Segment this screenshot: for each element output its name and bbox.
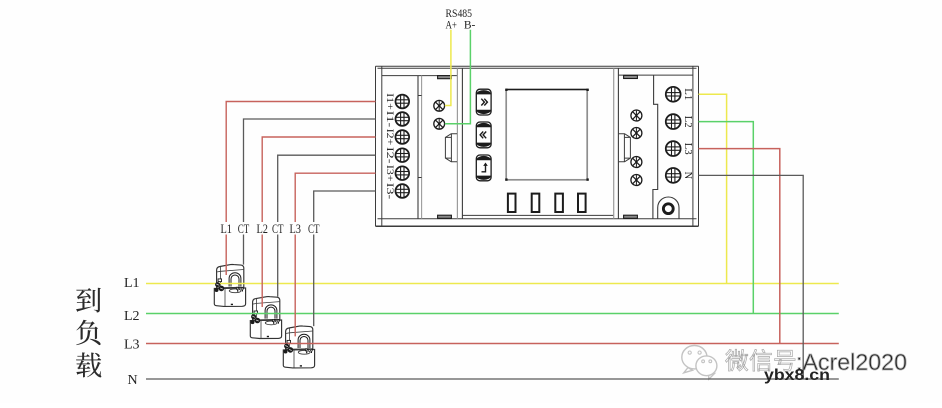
current transformer CT1 (phase L1) (214, 265, 245, 307)
svg-text:L1: L1 (124, 276, 140, 291)
wire L3 terminal to bus (red) (699, 149, 780, 344)
svg-text:L3: L3 (682, 143, 694, 155)
fastening screw 4 (631, 175, 642, 186)
svg-text:A+: A+ (445, 17, 457, 31)
current transformer CT3 (phase L3) (283, 326, 314, 368)
wire I2+ to CT2 (red) (262, 137, 375, 307)
svg-text:L3: L3 (289, 222, 301, 236)
terminal screw I3+ (396, 166, 410, 180)
indicator window 3 (555, 194, 563, 212)
indicator window 4 (578, 194, 586, 212)
indicator window 2 (532, 194, 540, 212)
svg-text:N: N (128, 373, 138, 388)
button right-arrow (476, 89, 491, 115)
svg-text:I3+: I3+ (384, 165, 395, 182)
DIN release handle right (619, 134, 631, 162)
wire bus N (neutral line) (146, 378, 839, 380)
wire bus L2 (green phase line) (146, 313, 839, 315)
wire I1+ to CT1 (red) (226, 102, 375, 276)
RS485 terminal screw A+ (434, 100, 445, 111)
wire L2 terminal to bus (green) (699, 122, 754, 314)
terminal screw I2- (396, 148, 410, 162)
voltage terminal screw L3 (666, 141, 681, 156)
svg-text:L2: L2 (256, 222, 268, 236)
fastening screw 3 (631, 157, 642, 168)
voltage terminal screw N (666, 168, 681, 183)
wire bus L3 (red phase line) (146, 343, 839, 345)
fastening screw 1 (631, 110, 642, 121)
wire bus L1 (yellow phase line) (146, 283, 839, 285)
meter section divider right (613, 68, 615, 219)
wire I1- to CT1 (dark) (244, 119, 376, 265)
svg-text:I2+: I2+ (384, 129, 395, 146)
wire RS485 B- (green) (445, 30, 471, 124)
CT3 secondary terminals (284, 344, 313, 354)
wire label CT (237, 222, 251, 236)
wire N terminal to bus (dark) (699, 175, 804, 379)
DIN clip tab top-right (624, 75, 638, 78)
wire I2- to CT2 (dark) (278, 155, 376, 297)
CT2 secondary terminals (251, 314, 280, 324)
current transformer CT2 (phase L2) (250, 297, 281, 339)
svg-text:L1: L1 (220, 222, 232, 236)
terminal screw I1- (396, 112, 410, 126)
svg-text:I1-: I1- (384, 111, 395, 128)
svg-text:I1+: I1+ (384, 93, 395, 110)
button enter (476, 155, 491, 181)
svg-text:N: N (682, 172, 694, 180)
CT1 secondary terminals (215, 282, 244, 292)
watermark text weixinhao (725, 349, 748, 371)
wire I3+ to CT3 (red) (295, 173, 375, 336)
fastening screw 2 (631, 128, 642, 139)
svg-text:CT: CT (308, 222, 320, 236)
wire label L2 (255, 222, 269, 236)
terminal screw I3- (396, 184, 410, 198)
current input terminal block edge (417, 76, 419, 219)
svg-text:ybx8.cn: ybx8.cn (764, 367, 830, 384)
voltage terminal screw L2 (666, 114, 681, 129)
wire label L1 (219, 222, 233, 236)
button left-arrow (476, 122, 491, 148)
svg-text:I3-: I3- (384, 183, 395, 200)
wire I3- to CT3 (dark) (314, 191, 376, 326)
svg-text:L3: L3 (124, 338, 140, 353)
indicator window 1 (508, 194, 516, 212)
watermark wechat icon (682, 346, 717, 380)
label daofuzai (to load) (76, 288, 101, 313)
meter section divider left (456, 68, 458, 219)
wire label CT (307, 222, 321, 236)
terminal screw I1+ (396, 95, 410, 109)
svg-text:CT: CT (272, 222, 284, 236)
DIN clip tab bottom-right (624, 215, 638, 218)
wire label CT (271, 222, 285, 236)
meter U1 outer case (376, 66, 699, 226)
svg-text:CT: CT (238, 222, 250, 236)
meter case bottom edge (376, 225, 699, 227)
svg-text:L2: L2 (682, 116, 694, 128)
terminal screw I2+ (396, 130, 410, 144)
svg-text:I2-: I2- (384, 147, 395, 164)
DIN release handle left (445, 134, 457, 162)
svg-text:L1: L1 (682, 88, 694, 100)
voltage terminal block edge (653, 75, 658, 219)
wire label L3 (288, 222, 302, 236)
wire L1 terminal to bus (yellow) (699, 94, 727, 283)
RS485 terminal screw B- (434, 118, 445, 129)
LCD display (505, 89, 589, 181)
svg-text:B-: B- (464, 17, 476, 31)
svg-text:L2: L2 (124, 309, 140, 324)
wire RS485 A+ (yellow) (445, 30, 451, 106)
voltage terminal screw L1 (666, 87, 681, 102)
DIN clip tab top-left (438, 76, 452, 79)
sealing screw dome (658, 197, 679, 219)
DIN clip tab bottom-left (438, 215, 452, 218)
